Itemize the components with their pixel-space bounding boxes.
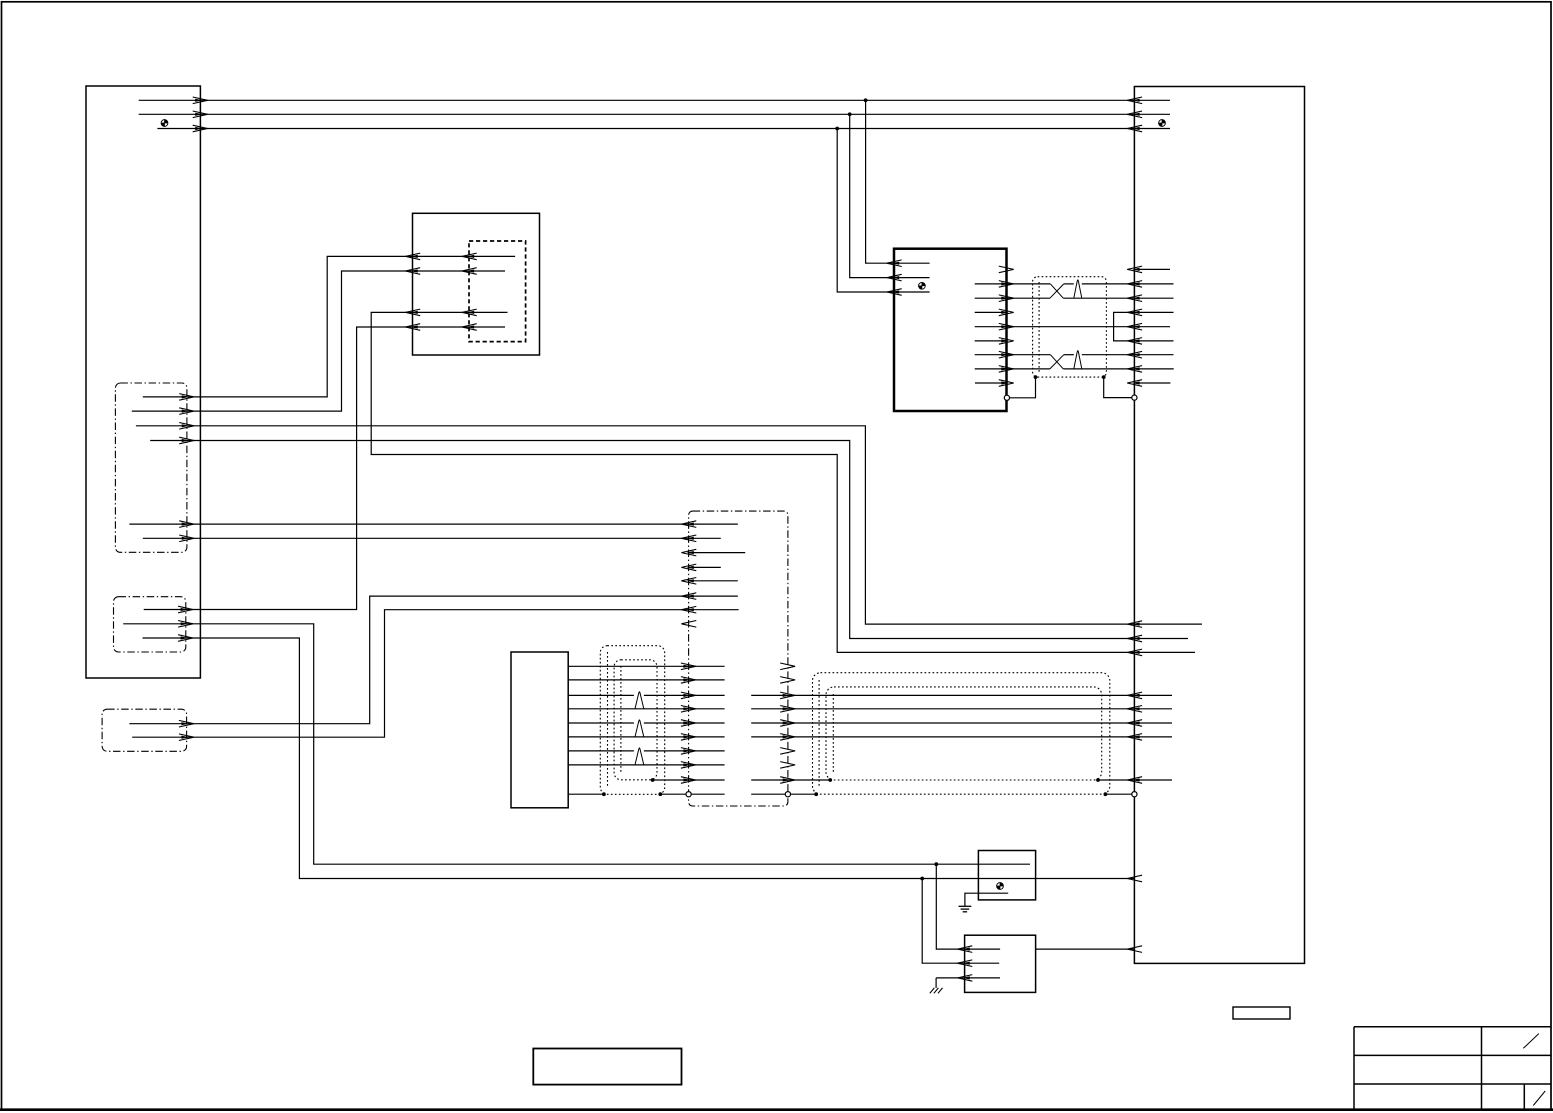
wire A2 row1 to K1 xyxy=(568,663,795,670)
module A1 (top small box) xyxy=(413,213,540,355)
connector P3 (dash-dot box 3) xyxy=(102,709,187,751)
wire P1 sig4 to J2 xyxy=(150,437,1188,642)
wire pairA+ U1 to J2 xyxy=(975,281,1174,288)
wire P2 sig2 to bottom module B1 xyxy=(123,621,1030,865)
K1 pin stub a xyxy=(681,549,745,556)
wire A1 sig4 to P2 xyxy=(144,324,505,613)
node junction net1 xyxy=(864,98,868,102)
U1 pin row1 unconnected xyxy=(999,266,1014,273)
wire pairB+ U1 to J2 xyxy=(975,351,1174,358)
loopback jumper J2 xyxy=(1114,309,1174,344)
harness K1 (dash-dot cable box) xyxy=(689,511,788,806)
wire W2 inner shield drain xyxy=(651,777,1172,784)
cable shield outline W2 inner xyxy=(614,660,657,780)
node junction bottom net2 xyxy=(920,877,924,881)
wire branch to B2 pin1 xyxy=(936,864,1000,952)
shield symbol left xyxy=(161,120,168,127)
wire branch to B2 pin2 xyxy=(922,879,999,967)
cable shield outline W2 outer xyxy=(600,646,664,795)
connector P1 (dash-dot box 1) xyxy=(115,383,186,552)
pairB twist xyxy=(1074,351,1082,369)
note box bottom center xyxy=(533,1049,681,1085)
wire net2 branch to U1 xyxy=(850,114,930,281)
twist symbol pair2 xyxy=(635,720,644,737)
wire pairB- U1 to J2 xyxy=(975,366,1174,373)
wire P1 sig1 to A1 xyxy=(143,253,515,400)
connector P2 (dash-dot box 2) xyxy=(114,597,186,652)
wire A2 row2 to K1 xyxy=(568,677,795,684)
title block xyxy=(1354,1027,1551,1110)
wire net1 branch to U1 xyxy=(866,100,930,266)
wire A1 sig3 to J2 xyxy=(371,309,1195,656)
earth ground B1 xyxy=(959,906,972,912)
W1 shield drain right xyxy=(1102,375,1137,400)
J2 pin row9 stub xyxy=(1127,380,1170,387)
shield symbol U1 xyxy=(919,282,926,289)
wire row5 U1 to J2 xyxy=(975,323,1170,330)
wire net2 J1 to J2 xyxy=(139,111,1170,118)
twist symbol pair3 xyxy=(635,748,644,765)
wire P1 sig3 to J2 xyxy=(136,423,1202,628)
K1 pin unconnected xyxy=(681,621,696,628)
U1 pin row6 stub xyxy=(975,338,1014,345)
wire net1 J1 to J2 top xyxy=(139,97,1170,104)
connector J2 (right connector box) xyxy=(1134,87,1304,964)
module B1 (bottom filter box) xyxy=(978,851,1035,900)
U1 pin row9 stub xyxy=(975,380,1014,387)
cable shield outline W1 xyxy=(1033,277,1107,377)
wire P2 sig3 to J2 xyxy=(143,635,1143,882)
shield symbol right xyxy=(1159,120,1166,127)
cable shield outline W3 outer xyxy=(813,673,1110,795)
wire A2 row7 to K1 xyxy=(568,748,795,755)
wire pairA- U1 to J2 xyxy=(975,295,1174,302)
pairB crossover xyxy=(1050,355,1064,369)
wire net3 branch to U1 xyxy=(837,129,929,296)
K1 pin stub c xyxy=(681,578,737,585)
twist symbol pair1 xyxy=(635,692,644,709)
K1 pin stub b xyxy=(681,564,720,571)
U1 pin row4 stub xyxy=(975,309,1014,316)
wire net3 shield J1 to J2 xyxy=(157,125,1170,132)
node junction net3 xyxy=(835,127,839,131)
wire B2 out to J2 xyxy=(1036,946,1143,953)
wire P3 sig1 to K1 xyxy=(129,593,737,727)
pairA twist xyxy=(1074,280,1082,298)
W1 shield drain left xyxy=(1004,375,1037,400)
wire A2 row5 pair to J2 xyxy=(568,720,1172,727)
node junction net2 xyxy=(848,112,852,116)
wire A2 row6 pair to J2 xyxy=(568,734,1172,741)
wire P3 sig2 to K1 xyxy=(132,606,738,740)
wire B2 pin3 chassis xyxy=(936,975,1000,988)
chassis ground B2 xyxy=(930,988,943,993)
J2 pin row1 stub xyxy=(1127,266,1170,273)
label box near title block xyxy=(1233,1007,1290,1019)
module U1 (bold box) xyxy=(894,249,1007,411)
cable shield outline W3 inner xyxy=(826,687,1102,780)
shield symbol B1 xyxy=(997,883,1004,890)
wire A2 row4 pair to J2 xyxy=(568,706,1172,713)
wire A2 row3 pair to J2 xyxy=(568,692,1172,699)
pairA crossover xyxy=(1050,284,1064,298)
A1 inner dashed connector xyxy=(469,241,526,342)
wire P1 sig6 to K1 xyxy=(143,535,721,542)
wire W2 outer shield drain xyxy=(568,792,1137,797)
wire P1 sig5 to K1 xyxy=(129,521,737,528)
wire A2 row8 to K1 xyxy=(568,762,795,769)
wire P1 sig2 to A1 xyxy=(132,268,505,415)
connector J1 (left connector box) xyxy=(86,86,200,678)
wire B1 ground leg xyxy=(965,893,1008,906)
module B2 (bottom filter box 2) xyxy=(965,935,1036,992)
module A2 (solid box) xyxy=(511,652,568,808)
node junction bottom net1 xyxy=(934,862,938,866)
